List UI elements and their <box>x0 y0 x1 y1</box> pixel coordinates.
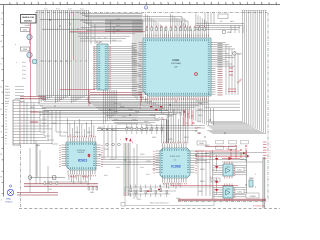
red pin numbers under IC601 <box>146 98 207 100</box>
red wire pair right section <box>196 147 250 158</box>
transistor Q203 <box>32 59 37 64</box>
svg-text:1: 1 <box>146 6 147 9</box>
circled node 1 <box>144 6 147 10</box>
connector block small CN2 <box>21 47 30 51</box>
svg-text:C203: C203 <box>22 65 26 68</box>
svg-text:2: 2 <box>270 144 271 147</box>
svg-text:C204: C204 <box>22 73 26 76</box>
label box CN801 <box>235 168 244 172</box>
test point circles <box>106 143 121 146</box>
svg-text:5: 5 <box>270 152 271 155</box>
wire bus top right segments <box>143 13 244 33</box>
svg-text:R522: R522 <box>112 129 117 132</box>
maroon bottom rail <box>178 199 266 200</box>
svg-text:S6: S6 <box>80 60 82 63</box>
svg-text:IC801: IC801 <box>237 169 242 172</box>
svg-text:R311: R311 <box>152 136 156 139</box>
svg-text:TP8: TP8 <box>226 148 229 151</box>
dark bus vertical into IC302 <box>145 115 205 144</box>
svg-text:SENS: SENS <box>5 94 11 97</box>
svg-text:3: 3 <box>70 134 71 137</box>
IC802 regulator <box>213 184 247 201</box>
svg-text:M901: M901 <box>6 198 12 201</box>
board boundary dash-dot left <box>20 145 22 207</box>
svg-text:C304: C304 <box>140 166 144 169</box>
svg-text:C801: C801 <box>197 120 201 123</box>
svg-text:5: 5 <box>60 98 61 101</box>
maroon rail pair mid <box>90 93 142 106</box>
wire bundle between bottom ICs <box>101 125 159 199</box>
svg-text:XTSL: XTSL <box>116 18 121 21</box>
svg-text:C503: C503 <box>116 166 120 169</box>
svg-text:IC802: IC802 <box>226 188 231 191</box>
svg-text:MDX: MDX <box>230 20 235 23</box>
svg-text:R511: R511 <box>63 131 67 134</box>
svg-text:IC802: IC802 <box>237 191 242 194</box>
svg-text:G: G <box>1 153 3 156</box>
wire drops into IC302 top pins <box>162 108 188 144</box>
title box SERVO BOARD <box>21 15 37 28</box>
red rails left middle <box>20 97 46 99</box>
svg-text:3: 3 <box>270 146 271 149</box>
svg-text:IC801: IC801 <box>226 166 231 169</box>
wire bus vertical left field <box>36 11 89 104</box>
wires from CN201 to bus <box>22 103 138 144</box>
svg-text:R203: R203 <box>22 77 26 80</box>
svg-text:CLOK: CLOK <box>150 114 156 117</box>
tiny labels above left bus <box>44 8 84 11</box>
svg-text:MDS: MDS <box>198 108 203 111</box>
wire bus vertical right field <box>207 11 266 134</box>
svg-text:P104: P104 <box>80 8 84 11</box>
svg-text:P103: P103 <box>68 8 72 11</box>
svg-text:C801: C801 <box>198 190 203 193</box>
right section vertical wires <box>210 150 265 208</box>
svg-text:2: 2 <box>210 156 211 159</box>
svg-text:R523: R523 <box>126 126 131 129</box>
svg-text:44: 44 <box>150 100 152 103</box>
label row above IC402 <box>86 37 116 43</box>
svg-text:6: 6 <box>270 154 271 157</box>
svg-text:S2: S2 <box>54 60 56 63</box>
wires below IC302 into shield box <box>164 183 181 190</box>
svg-text:FSW: FSW <box>198 102 202 105</box>
motor M901 <box>5 185 14 204</box>
wire bus right lower horizontals <box>196 101 240 125</box>
red wire near IC402 bottom <box>60 90 95 106</box>
svg-text:4: 4 <box>210 176 211 179</box>
svg-text:S201: S201 <box>23 29 27 32</box>
svg-text:R313: R313 <box>184 136 189 139</box>
IC801 regulator <box>213 162 247 179</box>
maroon rail pair lower <box>17 193 58 195</box>
resistor row R6xx above IC601 <box>146 26 205 31</box>
wires below IC501 <box>48 166 91 193</box>
border frame left ruler <box>1 5 4 202</box>
red test points mid right <box>230 145 247 158</box>
svg-text:S0: S0 <box>42 60 44 63</box>
svg-text:MDP: MDP <box>198 114 203 117</box>
svg-text:12: 12 <box>86 98 88 101</box>
svg-text:R802: R802 <box>205 152 210 155</box>
svg-text:R330: R330 <box>199 142 203 145</box>
red marks on left wires <box>30 112 38 122</box>
svg-text:C802: C802 <box>197 126 201 129</box>
svg-text:SPINDLE: SPINDLE <box>5 201 13 204</box>
label box CN803 <box>246 193 259 198</box>
svg-text:R803: R803 <box>200 168 205 171</box>
red diode D806 with wire <box>222 157 240 161</box>
border frame bottom ruler <box>19 207 280 209</box>
svg-text:D805: D805 <box>240 158 245 161</box>
svg-text:31: 31 <box>186 122 188 125</box>
signal labels outside IC601 sides <box>132 43 223 95</box>
svg-text:P102: P102 <box>56 8 60 11</box>
wire fan from IC601 right pins <box>216 43 239 96</box>
svg-text:C303: C303 <box>152 168 157 171</box>
IC302 RF amp QFP <box>153 142 197 185</box>
reference labels scattered <box>30 18 245 193</box>
svg-text:C319: C319 <box>176 197 180 200</box>
svg-text:R201: R201 <box>22 61 26 64</box>
svg-text:C521: C521 <box>140 129 145 132</box>
svg-text:C201: C201 <box>42 118 47 121</box>
svg-text:S4: S4 <box>66 60 68 63</box>
transistor Q202 <box>27 51 32 62</box>
svg-text:CXD2545Q: CXD2545Q <box>171 62 182 65</box>
red wire horizontal top <box>70 31 145 33</box>
svg-text:MDP: MDP <box>116 24 121 27</box>
IC601 DSP quad flat pack <box>139 34 216 101</box>
svg-text:C620: C620 <box>237 53 242 56</box>
svg-text:R602: R602 <box>114 110 118 113</box>
capacitor C620 <box>233 52 242 56</box>
svg-text:S3: S3 <box>60 60 62 63</box>
component cluster in shield box <box>128 185 180 205</box>
svg-text:S8: S8 <box>70 60 72 63</box>
svg-text:S-753-117-11: S-753-117-11 <box>253 205 266 208</box>
wire verticals into IC402 top <box>78 20 135 44</box>
diode cluster D801-D804 <box>215 155 218 195</box>
wires left lower verticals <box>40 110 66 144</box>
red pin rows right edge connector <box>263 141 271 160</box>
wire drops into IC601 top pins <box>146 14 209 34</box>
svg-text:C501: C501 <box>104 148 109 151</box>
transistor Q201 <box>27 32 32 45</box>
svg-text:R318 C316 R319 C317: R318 C316 R319 C317 <box>150 202 169 205</box>
svg-text:R601: R601 <box>114 102 118 105</box>
svg-text:L501: L501 <box>90 191 94 194</box>
component labels mid gaps <box>104 102 201 177</box>
component labels left column <box>22 61 26 80</box>
svg-text:XLAT: XLAT <box>120 105 124 108</box>
svg-text:L502: L502 <box>48 188 52 191</box>
svg-text:R201: R201 <box>30 106 35 109</box>
pin numbers above IC601 <box>146 35 209 37</box>
svg-text:S5: S5 <box>85 60 87 63</box>
red supply wire vertical left <box>29 23 31 100</box>
test point red marks right of IC601 <box>228 68 243 92</box>
svg-text:S7: S7 <box>75 60 77 63</box>
connector block small CN1 <box>21 28 30 32</box>
svg-text:4: 4 <box>16 61 17 64</box>
left column verticals above ladder <box>24 100 40 193</box>
svg-text:DFCT: DFCT <box>168 115 173 118</box>
red component cluster under IC601 <box>150 106 193 126</box>
connector CN201 ladder <box>5 100 22 146</box>
svg-text:R513: R513 <box>87 131 92 134</box>
Q803 transistor block <box>249 177 254 187</box>
svg-text:5912FP: 5912FP <box>78 151 85 154</box>
shield box outline bottom center <box>121 187 214 206</box>
svg-text:4: 4 <box>270 149 271 152</box>
label box above IC302 <box>197 141 206 145</box>
svg-text:14: 14 <box>90 134 92 137</box>
svg-text:a: a <box>15 44 16 46</box>
svg-text:1: 1 <box>120 138 121 141</box>
wire spindle control <box>28 145 65 179</box>
red part number bottom right <box>253 205 266 208</box>
svg-text:R202: R202 <box>22 69 26 72</box>
svg-text:R512: R512 <box>75 131 80 134</box>
svg-text:SERVO TIM: SERVO TIM <box>22 16 34 19</box>
svg-text:C302: C302 <box>146 160 151 163</box>
board boundary dash-dot bottom <box>178 201 267 203</box>
svg-text:1: 1 <box>270 141 271 144</box>
crystal X601 <box>222 30 231 34</box>
wire fan from IC402 pins to bus <box>105 20 143 100</box>
svg-text:J: J <box>1 198 2 201</box>
label boxes right of IC302 <box>216 141 249 150</box>
red wire bottom center <box>170 184 238 186</box>
svg-text:IC302: IC302 <box>171 165 181 169</box>
label box R820 <box>211 178 220 182</box>
wire bus center staircase <box>90 90 208 124</box>
svg-text:C202: C202 <box>52 122 57 125</box>
wires IC302 right to regulators <box>195 151 247 196</box>
svg-text:1: 1 <box>255 173 256 176</box>
svg-text:CN803: CN803 <box>250 195 256 198</box>
svg-text:R321: R321 <box>146 173 150 176</box>
red wires in left bus <box>70 13 74 96</box>
svg-text:R312: R312 <box>168 138 173 141</box>
red reference labels scattered <box>60 98 256 189</box>
signal name row across left bus <box>40 60 87 63</box>
svg-text:23: 23 <box>162 118 164 121</box>
svg-text:Q803: Q803 <box>249 177 254 180</box>
svg-text:R804: R804 <box>200 180 205 183</box>
IC402 vertical DIP <box>93 41 112 90</box>
svg-text:IC601: IC601 <box>173 59 180 62</box>
wire drops from IC601 bottom pins <box>146 101 209 126</box>
svg-text:IC302 CXA: IC302 CXA <box>170 155 181 158</box>
left wire stubs and labels <box>5 44 24 103</box>
svg-text:R531: R531 <box>104 174 108 177</box>
svg-text:C502: C502 <box>110 158 115 161</box>
dark bus lines above IC501 right <box>97 129 148 142</box>
svg-text:52: 52 <box>175 100 177 103</box>
svg-text:SQCK: SQCK <box>5 91 11 94</box>
svg-text:X601: X601 <box>227 31 231 34</box>
svg-text:R805: R805 <box>197 132 201 135</box>
svg-text:8: 8 <box>132 141 133 144</box>
component cluster under maroon rails <box>88 187 98 194</box>
svg-text:R521: R521 <box>98 126 103 129</box>
board boundary dash-dot right <box>267 13 269 202</box>
wire drops into IC501 top pins <box>68 118 94 138</box>
maroon rail pair upper <box>24 184 98 186</box>
label box CN802 <box>235 190 244 194</box>
svg-text:S202: S202 <box>23 48 27 51</box>
svg-text:3: 3 <box>255 186 256 189</box>
svg-text:BOARD: BOARD <box>24 20 32 23</box>
svg-text:MON: MON <box>116 29 121 32</box>
svg-text:7: 7 <box>270 157 271 160</box>
svg-text:P101: P101 <box>44 8 48 11</box>
border frame top ruler <box>0 1 280 4</box>
svg-text:IC501: IC501 <box>78 159 88 163</box>
svg-text:S1: S1 <box>48 60 50 63</box>
svg-text:C601: C601 <box>114 118 118 121</box>
svg-text:C402: C402 <box>112 39 116 42</box>
board boundary dash-dot top <box>35 12 267 14</box>
wire bus middle left horizontals <box>38 96 176 115</box>
red labels under IC501 <box>70 176 89 179</box>
svg-text:C315: C315 <box>137 198 141 201</box>
component cluster left of shield box <box>44 182 58 192</box>
svg-text:IC402: IC402 <box>96 41 103 44</box>
IC501 motor driver QFP <box>59 136 103 177</box>
wire bus top horizontal fan <box>40 14 143 32</box>
svg-text:C301: C301 <box>140 153 145 156</box>
resistor strip above IC302 <box>126 124 163 134</box>
svg-text:DATA: DATA <box>5 97 10 100</box>
